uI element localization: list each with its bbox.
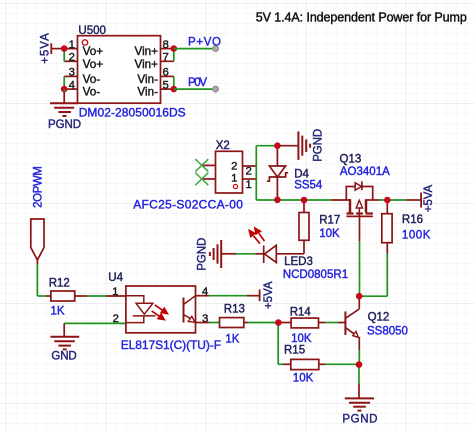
- junction dots U500: [61, 45, 177, 92]
- svg-text:+5VA: +5VA: [40, 33, 52, 64]
- mosfet Q13 body: [346, 181, 373, 216]
- port P0V: [213, 86, 219, 92]
- svg-text:Vin+: Vin+: [134, 45, 158, 58]
- svg-text:2: 2: [231, 160, 237, 172]
- optocoupler U4 body: [126, 286, 196, 333]
- svg-text:2OPWM: 2OPWM: [33, 166, 45, 208]
- X2 pin1 indicator: [233, 184, 237, 188]
- svg-text:PGND: PGND: [312, 129, 324, 162]
- svg-text:Q13: Q13: [340, 153, 362, 165]
- X2 pin labels: [231, 160, 252, 191]
- svg-text:R17: R17: [319, 215, 340, 227]
- wire lower rail: [256, 199, 331, 201]
- ground GND: [64, 322, 126, 324]
- junction dots: [274, 142, 391, 368]
- resistor R13: [220, 318, 244, 328]
- U500 pin 3: [64, 75, 77, 77]
- Q13 gate wire: [359, 216, 361, 241]
- transistor Q12: [358, 296, 360, 309]
- U4 internal LED: [126, 296, 155, 323]
- U500 pin 1 indicator: [82, 40, 87, 45]
- svg-text:SS54: SS54: [294, 179, 323, 191]
- power +5VA mid: [259, 290, 261, 302]
- U500 pin names: [83, 45, 159, 99]
- wire pins 6-5: [173, 76, 175, 89]
- X2 pin 2: [243, 165, 257, 167]
- U500 pin numbers: [69, 39, 169, 92]
- U4 coupling arrows: [152, 305, 168, 320]
- svg-text:R14: R14: [290, 306, 312, 318]
- power +5VA left: [50, 43, 52, 54]
- U500 pin 8: [161, 48, 174, 50]
- U500 pin 7: [161, 60, 174, 62]
- svg-text:Vin-: Vin-: [137, 86, 158, 99]
- svg-text:1: 1: [246, 179, 252, 191]
- svg-text:R12: R12: [49, 277, 70, 289]
- svg-text:7: 7: [163, 52, 169, 64]
- wire X2 loop vertical: [255, 146, 257, 200]
- svg-text:PGND: PGND: [197, 238, 209, 271]
- wire pins 8-7: [173, 49, 175, 62]
- svg-text:8: 8: [163, 39, 169, 51]
- wire to port P+VO: [174, 48, 213, 50]
- ground PGND under U500: [63, 89, 65, 92]
- svg-text:+5VA: +5VA: [423, 184, 435, 212]
- svg-text:P0V: P0V: [188, 77, 207, 89]
- wire 2OPWM to R12: [36, 260, 38, 264]
- svg-text:DM02-28050016DS: DM02-28050016DS: [79, 106, 186, 120]
- U4 phototransistor: [184, 296, 196, 323]
- U4 pin numbers: [112, 286, 208, 325]
- resistor R14: [278, 322, 291, 324]
- svg-text:EL817S1(C)(TU)-F: EL817S1(C)(TU)-F: [121, 338, 221, 352]
- svg-text:1K: 1K: [225, 333, 239, 345]
- svg-text:LED3: LED3: [284, 256, 313, 268]
- svg-text:PGND: PGND: [48, 119, 81, 131]
- no-connect X a: [195, 159, 208, 185]
- svg-text:2: 2: [113, 313, 119, 325]
- ground PGND bottom: [358, 365, 360, 384]
- svg-text:10K: 10K: [319, 228, 340, 240]
- svg-text:X2: X2: [216, 140, 230, 152]
- svg-text:SS8050: SS8050: [367, 325, 408, 337]
- diode D4: [276, 146, 278, 166]
- svg-text:P+VO: P+VO: [188, 37, 221, 49]
- svg-text:4: 4: [69, 79, 75, 91]
- svg-text:AO3401A: AO3401A: [340, 166, 390, 178]
- svg-text:Vo-: Vo-: [83, 73, 101, 86]
- no-connect X b: [195, 173, 208, 186]
- svg-text:U4: U4: [108, 272, 123, 284]
- svg-text:5: 5: [163, 79, 169, 91]
- wire PGND to LED3: [221, 253, 236, 255]
- U4 pin4 wire to +5VA: [196, 295, 210, 297]
- X2 left pin b: [202, 178, 215, 180]
- X2 left pin a: [202, 164, 215, 166]
- LED LED3: [263, 246, 265, 264]
- wire top to D4: [256, 145, 277, 147]
- wire pins 1-2: [63, 49, 65, 62]
- svg-text:R15: R15: [284, 344, 305, 356]
- U4 pin3 wire: [196, 322, 210, 324]
- U500 pin 5: [161, 88, 174, 90]
- svg-text:Vin-: Vin-: [137, 73, 158, 86]
- ground PGND right-rotated: [298, 131, 310, 160]
- svg-text:5V 1.4A: Independent Power for: 5V 1.4A: Independent Power for Pump: [256, 10, 467, 24]
- svg-text:PGND: PGND: [342, 414, 377, 426]
- svg-text:+5VA: +5VA: [263, 281, 275, 309]
- svg-text:6: 6: [163, 67, 169, 79]
- U500 pin 2: [64, 60, 77, 62]
- resistor R17: [303, 200, 305, 213]
- svg-text:10K: 10K: [293, 372, 314, 384]
- svg-text:Q12: Q12: [368, 312, 390, 324]
- U500 pin 1: [64, 48, 77, 50]
- svg-text:1: 1: [112, 286, 118, 298]
- svg-text:AFC25-S02CCA-00: AFC25-S02CCA-00: [133, 198, 243, 212]
- wire pins 3-4: [63, 76, 65, 89]
- power +5VA right: [420, 193, 422, 208]
- svg-text:Vo+: Vo+: [83, 58, 104, 71]
- svg-text:2: 2: [69, 52, 75, 64]
- svg-text:R13: R13: [224, 303, 245, 315]
- U500 pin 6: [161, 75, 174, 77]
- svg-text:1K: 1K: [51, 306, 65, 318]
- LED3 arrows: [249, 228, 264, 244]
- svg-text:GND: GND: [51, 350, 76, 362]
- svg-text:10K: 10K: [291, 333, 312, 345]
- svg-text:3: 3: [69, 67, 75, 79]
- resistor R16: [386, 200, 388, 214]
- resistor R12: [51, 291, 75, 301]
- svg-text:1: 1: [69, 39, 75, 51]
- X2 pin 1: [243, 178, 257, 180]
- svg-text:Vo+: Vo+: [83, 45, 104, 58]
- svg-text:1: 1: [231, 173, 237, 185]
- ground PGND left-rotated at LED: [210, 240, 221, 268]
- wire to port P0V: [174, 88, 213, 90]
- svg-text:NCD0805R1: NCD0805R1: [283, 269, 348, 281]
- U500 pin 4: [64, 88, 77, 90]
- svg-text:Vo-: Vo-: [83, 86, 101, 99]
- svg-text:R16: R16: [402, 214, 423, 226]
- power module U500 body: [78, 36, 161, 104]
- svg-text:Vin+: Vin+: [134, 58, 158, 71]
- port P+VO: [213, 46, 219, 52]
- wire R13 junction down: [277, 323, 279, 365]
- wire D4 to PGND: [277, 145, 298, 147]
- resistor R15: [291, 359, 319, 369]
- svg-text:100K: 100K: [402, 229, 431, 241]
- connector X2 body: [216, 151, 243, 193]
- svg-text:2: 2: [246, 166, 252, 178]
